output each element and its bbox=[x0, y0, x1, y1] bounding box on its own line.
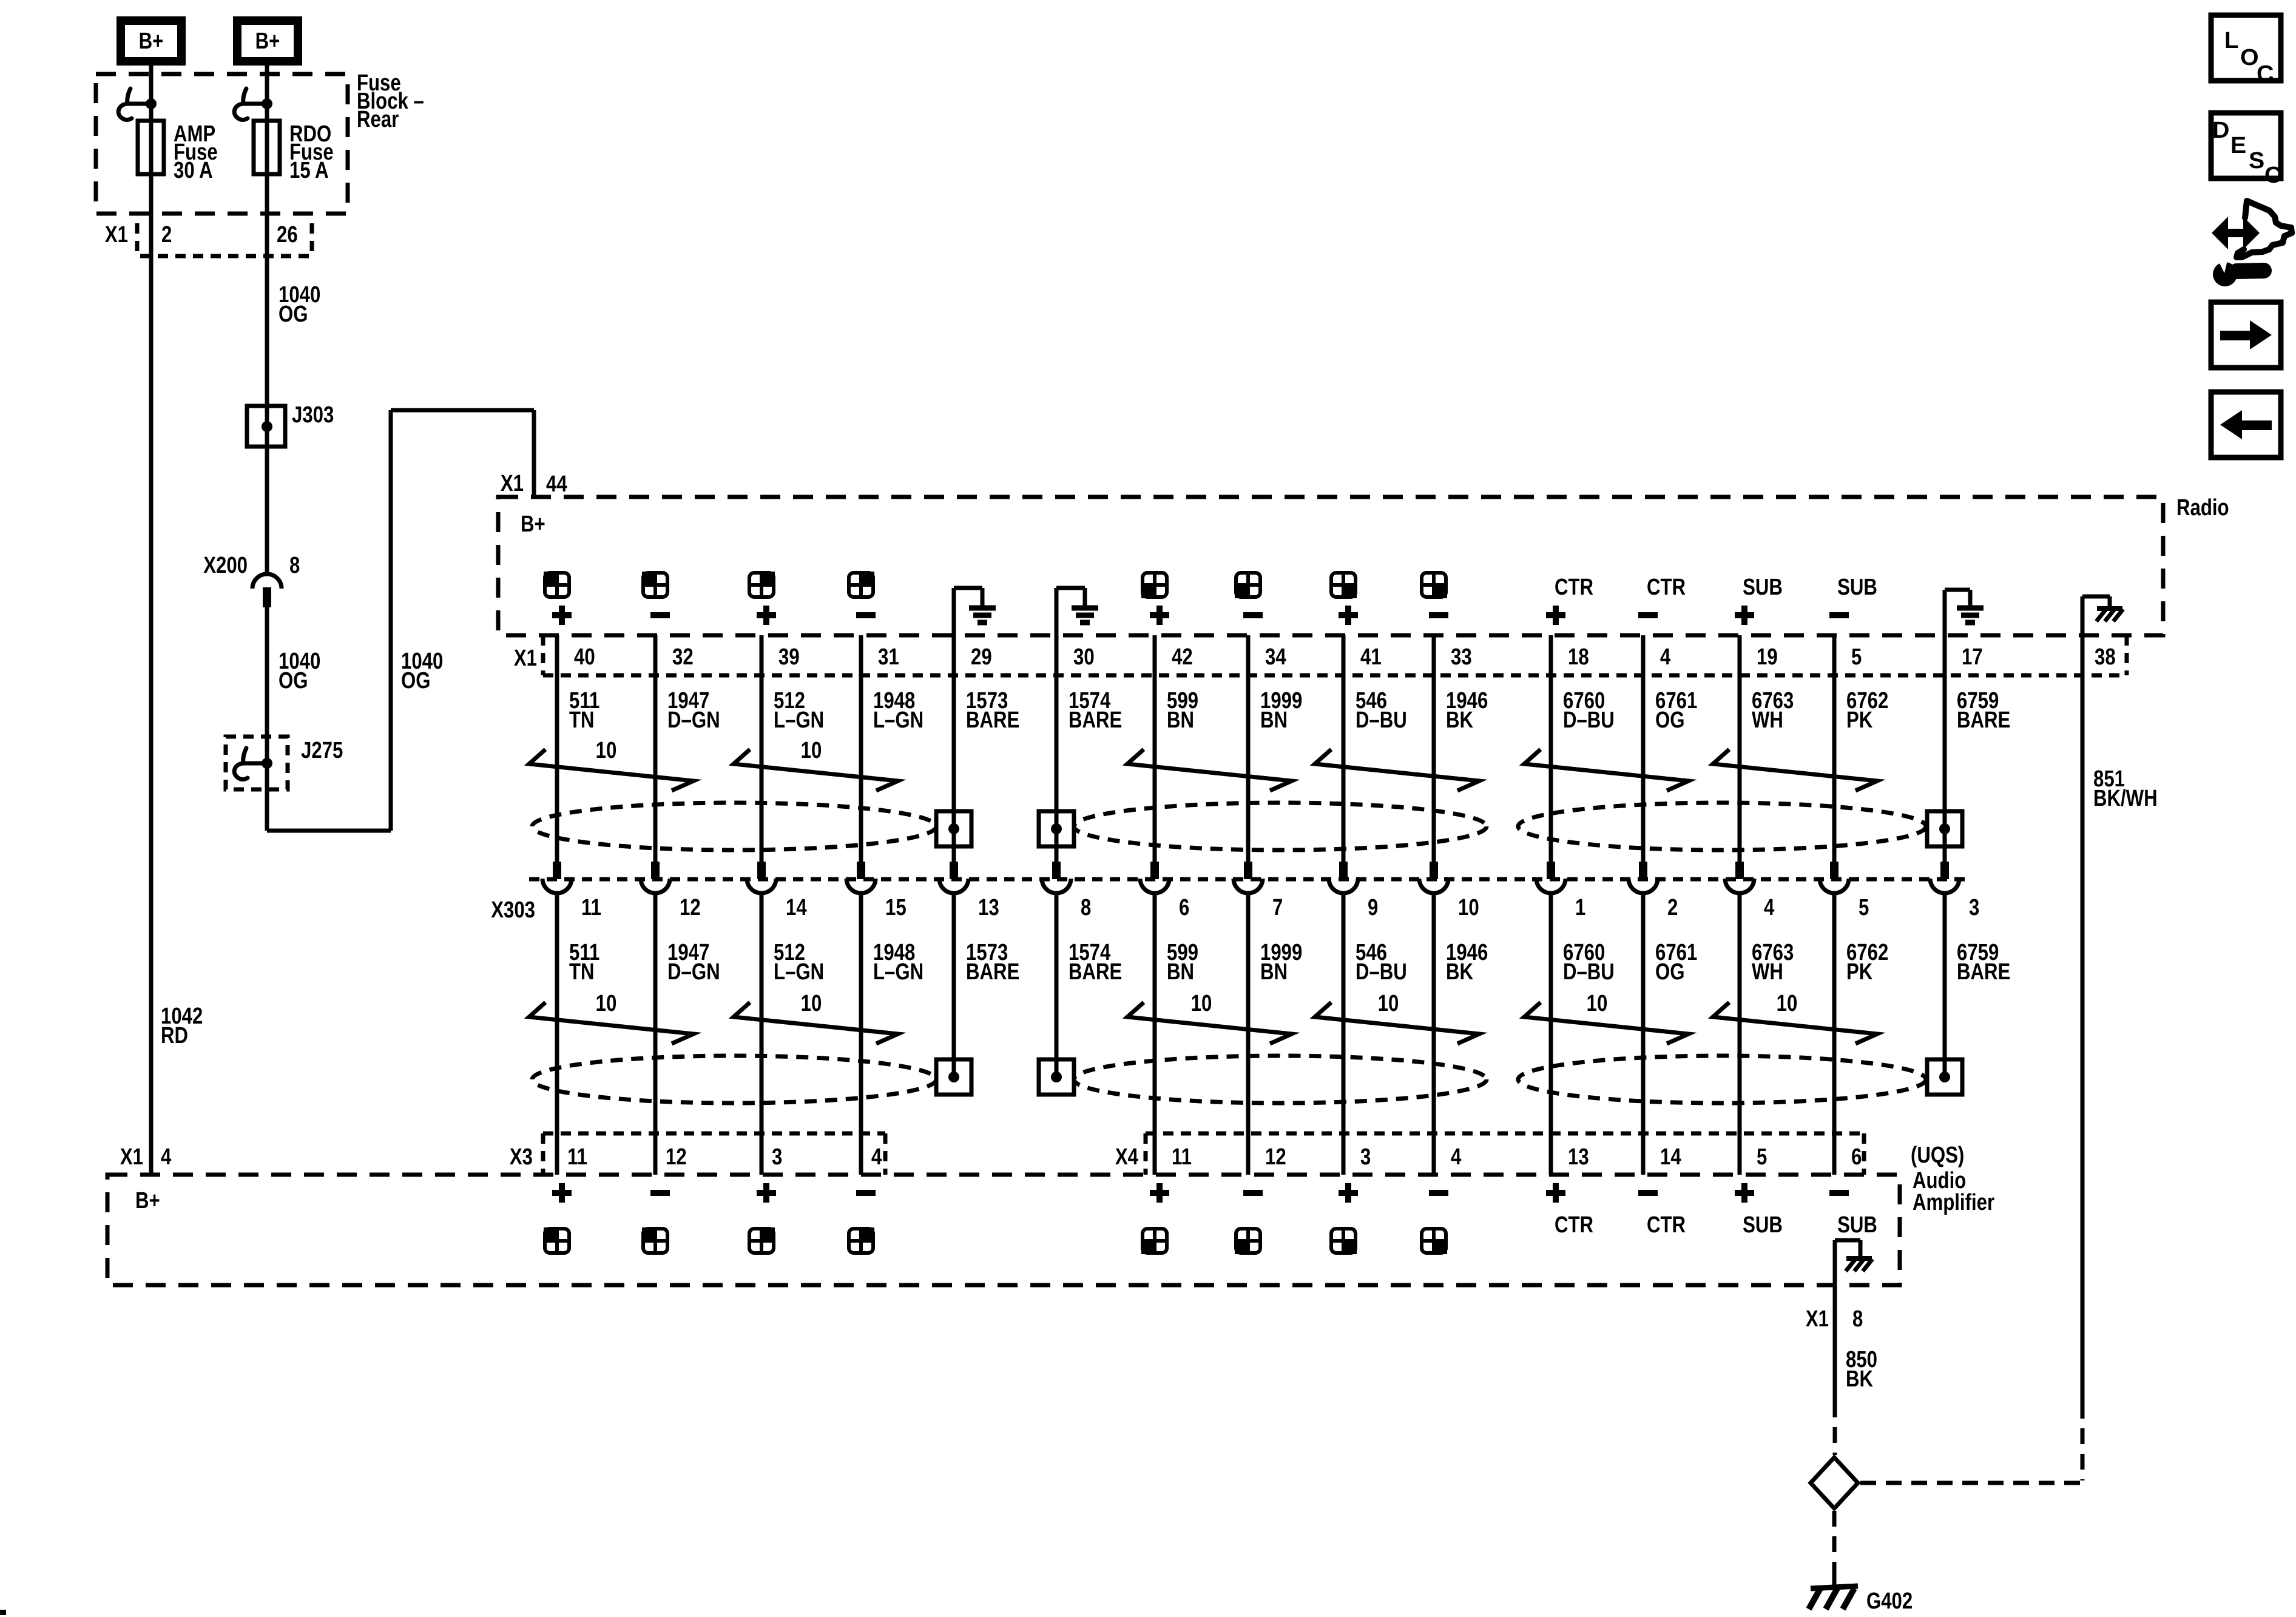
fuse terminal clip (RDO fuse) bbox=[243, 89, 265, 104]
svg-text:OG: OG bbox=[279, 302, 308, 327]
svg-text:OG: OG bbox=[401, 668, 431, 694]
fuse AMP Fuse 30 A bbox=[138, 121, 164, 174]
svg-text:10: 10 bbox=[1777, 991, 1798, 1016]
svg-text:38: 38 bbox=[2095, 644, 2116, 670]
svg-text:5: 5 bbox=[1757, 1144, 1767, 1170]
polarity - (amplifier, wire w10) bbox=[1429, 1190, 1448, 1196]
speaker icon (radio, pin 34) bbox=[1236, 573, 1260, 597]
polarity + (radio, wire w9) bbox=[1339, 612, 1358, 618]
svg-text:D–BU: D–BU bbox=[1356, 959, 1407, 985]
ground wire (amplifier internal to X1-8) bbox=[1833, 1240, 1837, 1402]
polarity + (radio, wire w1) bbox=[552, 612, 572, 618]
speaker icon (amplifier X3-3) bbox=[749, 1229, 774, 1253]
svg-text:1: 1 bbox=[1575, 895, 1585, 920]
svg-text:C: C bbox=[2264, 163, 2281, 188]
splice diamond bbox=[1811, 1457, 1858, 1508]
shield ellipse row 1 (CTR/SUB) bbox=[1518, 803, 1926, 850]
svg-text:X1: X1 bbox=[1806, 1306, 1829, 1332]
svg-text:SUB: SUB bbox=[1837, 575, 1877, 600]
svg-text:42: 42 bbox=[1172, 644, 1193, 670]
svg-text:15 A: 15 A bbox=[289, 158, 329, 183]
svg-text:31: 31 bbox=[878, 644, 899, 670]
svg-text:7: 7 bbox=[1272, 895, 1283, 920]
svg-text:11: 11 bbox=[567, 1144, 587, 1170]
svg-text:BN: BN bbox=[1167, 707, 1194, 733]
wire: 1040 OG routing to radio B+ (X1-44) bbox=[267, 829, 391, 833]
svg-text:BARE: BARE bbox=[1069, 959, 1122, 985]
svg-text:39: 39 bbox=[778, 644, 800, 670]
shield ellipse row 1 (rear speakers) bbox=[1074, 803, 1487, 850]
twisted-pair markers row 1 bbox=[529, 749, 694, 791]
svg-text:B+: B+ bbox=[135, 1188, 160, 1214]
svg-text:12: 12 bbox=[680, 895, 701, 920]
svg-text:(UQS): (UQS) bbox=[1911, 1143, 1964, 1168]
svg-text:34: 34 bbox=[1265, 644, 1286, 670]
svg-text:SUB: SUB bbox=[1743, 1212, 1783, 1238]
svg-text:CTR: CTR bbox=[1555, 1212, 1593, 1238]
svg-text:BARE: BARE bbox=[966, 707, 1019, 733]
ground (amplifier chassis symbol) bbox=[1846, 1256, 1872, 1261]
svg-text:B+: B+ bbox=[521, 511, 545, 537]
svg-text:BARE: BARE bbox=[1957, 707, 2010, 733]
wire: battery feed through AMP fuse, 1042 RD down to amplifier bbox=[149, 65, 154, 1175]
svg-text:E: E bbox=[2230, 133, 2246, 158]
svg-text:11: 11 bbox=[581, 895, 601, 920]
svg-text:D–GN: D–GN bbox=[667, 707, 720, 733]
polarity - (amplifier, wire w14) bbox=[1829, 1190, 1849, 1196]
fuse terminal clip (AMP fuse) bbox=[127, 89, 149, 104]
svg-text:8: 8 bbox=[1852, 1306, 1863, 1332]
svg-text:X200: X200 bbox=[203, 553, 248, 578]
svg-text:X3: X3 bbox=[510, 1144, 533, 1170]
connector X303 line bbox=[529, 877, 1966, 882]
wire: battery feed to RDO fuse bbox=[265, 65, 269, 573]
polarity + (amplifier, wire w3) bbox=[757, 1190, 776, 1196]
svg-text:13: 13 bbox=[1568, 1144, 1589, 1170]
speaker icon (radio, pin 40) bbox=[545, 573, 569, 597]
svg-text:2: 2 bbox=[161, 222, 172, 248]
icon LOC box bbox=[2211, 15, 2281, 81]
svg-text:2: 2 bbox=[1667, 895, 1678, 920]
svg-text:RD: RD bbox=[161, 1023, 188, 1048]
svg-text:19: 19 bbox=[1757, 644, 1778, 670]
svg-text:10: 10 bbox=[1378, 991, 1399, 1016]
wire splice to G402 bbox=[1832, 1511, 1837, 1578]
svg-text:32: 32 bbox=[672, 644, 694, 670]
svg-text:4: 4 bbox=[1764, 895, 1774, 920]
svg-text:CTR: CTR bbox=[1555, 575, 1593, 600]
svg-text:10: 10 bbox=[801, 991, 822, 1016]
ground G402 bbox=[1811, 1586, 1858, 1588]
svg-text:J275: J275 bbox=[301, 738, 343, 763]
svg-text:30 A: 30 A bbox=[174, 158, 213, 183]
speaker icon (amplifier X3-4) bbox=[849, 1229, 873, 1253]
svg-text:X1: X1 bbox=[501, 471, 524, 496]
svg-text:BN: BN bbox=[1260, 707, 1288, 733]
svg-text:D–BU: D–BU bbox=[1356, 707, 1407, 733]
svg-text:J303: J303 bbox=[292, 402, 334, 428]
svg-text:L–GN: L–GN bbox=[774, 959, 824, 985]
svg-text:10: 10 bbox=[1191, 991, 1212, 1016]
shield ellipse row 2 (rear speakers) bbox=[1074, 1056, 1487, 1103]
fuse RDO Fuse 15 A bbox=[254, 121, 280, 174]
svg-text:4: 4 bbox=[871, 1144, 882, 1170]
speaker icon (amplifier X4-12) bbox=[1236, 1229, 1260, 1253]
svg-text:BN: BN bbox=[1167, 959, 1194, 985]
wires: radio X1 pins down to X303 connectors bbox=[555, 635, 559, 862]
svg-text:Rear: Rear bbox=[357, 107, 399, 132]
power feed B+ (RDO circuit) bbox=[237, 21, 298, 61]
svg-text:BK: BK bbox=[1446, 959, 1473, 985]
svg-text:S: S bbox=[2249, 148, 2264, 174]
svg-text:4: 4 bbox=[1660, 644, 1670, 670]
svg-text:5: 5 bbox=[1851, 644, 1862, 670]
svg-text:O: O bbox=[2240, 45, 2259, 70]
connector X3 box bbox=[543, 1132, 885, 1136]
svg-text:X4: X4 bbox=[1115, 1144, 1138, 1170]
svg-text:10: 10 bbox=[596, 738, 617, 763]
wire 851 BK/WH (radio pin 38 to splice) bbox=[2081, 635, 2085, 1403]
svg-text:D–BU: D–BU bbox=[1563, 959, 1615, 985]
svg-text:44: 44 bbox=[546, 471, 567, 497]
svg-text:10: 10 bbox=[1458, 895, 1479, 920]
icon forward arrow box bbox=[2211, 302, 2281, 368]
polarity + (amplifier, wire w7) bbox=[1150, 1190, 1169, 1196]
svg-text:CTR: CTR bbox=[1647, 1212, 1686, 1238]
shield termination (drain 1573, row 2) bbox=[936, 1059, 971, 1095]
svg-text:10: 10 bbox=[801, 738, 822, 763]
connector X1 (fuse block) pins 2 and 26 bbox=[135, 223, 140, 253]
svg-text:3: 3 bbox=[1360, 1144, 1371, 1170]
svg-text:PK: PK bbox=[1846, 707, 1873, 733]
svg-text:BK: BK bbox=[1846, 1366, 1873, 1392]
svg-text:X1: X1 bbox=[105, 222, 128, 248]
svg-text:3: 3 bbox=[1969, 895, 1979, 920]
svg-text:OG: OG bbox=[279, 668, 308, 694]
svg-text:B+: B+ bbox=[255, 29, 280, 54]
svg-text:11: 11 bbox=[1172, 1144, 1192, 1170]
svg-text:BN: BN bbox=[1260, 959, 1288, 985]
connector X4 box bbox=[1146, 1132, 1864, 1136]
wires: shield drains from X303 to lower shield terminations bbox=[952, 894, 956, 1079]
polarity + (amplifier, wire w13) bbox=[1735, 1190, 1754, 1196]
svg-text:BK: BK bbox=[1446, 707, 1473, 733]
polarity - (amplifier, wire w8) bbox=[1243, 1190, 1263, 1196]
junction J275 bbox=[226, 737, 288, 789]
svg-text:BARE: BARE bbox=[1069, 707, 1122, 733]
shield termination (drain 6759, row 2) bbox=[1927, 1059, 1962, 1095]
stray mark (bottom-left artifact) bbox=[0, 1610, 6, 1615]
svg-text:WH: WH bbox=[1752, 959, 1783, 985]
polarity - (radio, wire w8) bbox=[1243, 612, 1263, 618]
svg-text:26: 26 bbox=[277, 222, 298, 248]
svg-text:8: 8 bbox=[289, 553, 300, 578]
polarity + (radio, wire w13) bbox=[1735, 612, 1754, 618]
shield termination (drain 1573, row 1) bbox=[936, 811, 971, 846]
svg-text:TN: TN bbox=[569, 959, 595, 985]
speaker icon (amplifier X4-11) bbox=[1143, 1229, 1167, 1253]
svg-text:BARE: BARE bbox=[1957, 959, 2010, 985]
svg-text:10: 10 bbox=[1587, 991, 1608, 1016]
svg-text:6: 6 bbox=[1179, 895, 1189, 920]
polarity - (radio, wire w4) bbox=[856, 612, 876, 618]
ground (radio pin 29 earth symbol) bbox=[952, 588, 956, 635]
svg-text:D–BU: D–BU bbox=[1563, 707, 1615, 733]
polarity - (radio, wire w10) bbox=[1429, 612, 1448, 618]
svg-text:SUB: SUB bbox=[1743, 575, 1783, 600]
connector X200 pin 8 bbox=[252, 574, 282, 589]
speaker icon (amplifier X4-4) bbox=[1422, 1229, 1446, 1253]
splice J303 bbox=[247, 406, 285, 447]
svg-text:10: 10 bbox=[596, 991, 617, 1016]
svg-text:OG: OG bbox=[1655, 959, 1685, 985]
polarity + (amplifier, wire w1) bbox=[552, 1190, 572, 1196]
svg-text:OG: OG bbox=[1655, 707, 1685, 733]
icon DESC box bbox=[2211, 113, 2281, 178]
polarity - (amplifier, wire w4) bbox=[856, 1190, 876, 1196]
twisted-pair markers row 2 bbox=[529, 1002, 694, 1044]
polarity - (amplifier, wire w2) bbox=[650, 1190, 670, 1196]
svg-text:L–GN: L–GN bbox=[873, 707, 923, 733]
icon harness routing (double arrow, component outline, wrench) bbox=[2212, 217, 2260, 249]
polarity - (radio, wire w14) bbox=[1829, 612, 1849, 618]
ground (radio pin 38 chassis symbol) bbox=[2081, 596, 2085, 635]
shield ellipse row 2 (left speakers) bbox=[532, 1056, 936, 1103]
svg-text:4: 4 bbox=[161, 1144, 171, 1170]
polarity - (radio, wire w2) bbox=[650, 612, 670, 618]
ground (radio pin 17 earth symbol) bbox=[1943, 590, 1947, 635]
speaker icon (amplifier X3-12) bbox=[643, 1229, 667, 1253]
svg-text:PK: PK bbox=[1846, 959, 1873, 985]
speaker icon (radio, pin 32) bbox=[643, 573, 667, 597]
svg-text:12: 12 bbox=[1265, 1144, 1286, 1170]
svg-text:29: 29 bbox=[971, 644, 992, 670]
svg-text:12: 12 bbox=[666, 1144, 687, 1170]
svg-text:18: 18 bbox=[1568, 644, 1589, 670]
svg-text:L: L bbox=[2224, 28, 2239, 53]
polarity + (radio, wire w3) bbox=[757, 612, 776, 618]
polarity - (amplifier, wire w12) bbox=[1638, 1190, 1658, 1196]
polarity + (radio, wire w11) bbox=[1546, 612, 1565, 618]
svg-text:X1: X1 bbox=[514, 646, 537, 671]
polarity - (radio, wire w12) bbox=[1638, 612, 1658, 618]
Fuse Block - Rear box bbox=[96, 74, 348, 214]
shield ellipse row 2 (CTR/SUB) bbox=[1518, 1056, 1926, 1103]
Audio Amplifier box bbox=[107, 1175, 1900, 1285]
svg-text:14: 14 bbox=[786, 895, 807, 920]
svg-text:D: D bbox=[2212, 118, 2229, 143]
svg-text:5: 5 bbox=[1859, 895, 1869, 920]
polarity + (amplifier, wire w11) bbox=[1546, 1190, 1565, 1196]
connector X1 (radio) box bbox=[541, 635, 545, 675]
power feed B+ (AMP circuit) bbox=[121, 21, 181, 61]
svg-text:WH: WH bbox=[1752, 707, 1783, 733]
wires: X303 connectors down to amplifier connectors bbox=[555, 894, 559, 1175]
wire 850 BK dashed to splice bbox=[1833, 1402, 1837, 1455]
speaker icon (amplifier X4-3) bbox=[1331, 1229, 1356, 1253]
svg-text:9: 9 bbox=[1368, 895, 1378, 920]
shield termination (drain 1574, row 1) bbox=[1039, 811, 1074, 846]
svg-text:B+: B+ bbox=[139, 29, 164, 54]
svg-text:X1: X1 bbox=[120, 1144, 143, 1170]
svg-text:8: 8 bbox=[1081, 895, 1091, 920]
svg-text:L–GN: L–GN bbox=[873, 959, 923, 985]
svg-text:Amplifier: Amplifier bbox=[1913, 1190, 1994, 1215]
svg-text:BK/WH: BK/WH bbox=[2093, 786, 2158, 811]
svg-text:L–GN: L–GN bbox=[774, 707, 824, 733]
speaker icon (radio, pin 39) bbox=[749, 573, 774, 597]
svg-text:C: C bbox=[2257, 61, 2274, 87]
shield termination (drain 6759, row 1) bbox=[1927, 811, 1962, 846]
svg-text:4: 4 bbox=[1451, 1144, 1461, 1170]
svg-text:33: 33 bbox=[1451, 644, 1472, 670]
shield termination (drain 1574, row 2) bbox=[1039, 1059, 1074, 1095]
svg-text:BARE: BARE bbox=[966, 959, 1019, 985]
svg-text:X303: X303 bbox=[491, 897, 535, 923]
svg-text:CTR: CTR bbox=[1647, 575, 1686, 600]
shield ellipse row 1 (left speakers) bbox=[532, 803, 936, 850]
svg-text:13: 13 bbox=[978, 895, 999, 920]
svg-text:41: 41 bbox=[1360, 644, 1382, 670]
svg-text:Radio: Radio bbox=[2176, 495, 2229, 521]
svg-text:D–GN: D–GN bbox=[667, 959, 720, 985]
speaker icon (radio, pin 42) bbox=[1143, 573, 1167, 597]
speaker icon (radio, pin 31) bbox=[849, 573, 873, 597]
speaker icon (radio, pin 33) bbox=[1422, 573, 1446, 597]
svg-text:SUB: SUB bbox=[1837, 1212, 1877, 1238]
svg-text:17: 17 bbox=[1962, 644, 1983, 670]
speaker icon (amplifier X3-11) bbox=[545, 1229, 569, 1253]
svg-text:3: 3 bbox=[772, 1144, 782, 1170]
polarity + (amplifier, wire w9) bbox=[1339, 1190, 1358, 1196]
svg-text:6: 6 bbox=[1851, 1144, 1862, 1170]
Radio box bbox=[498, 497, 2163, 635]
connector X303 terminals bbox=[553, 862, 561, 879]
svg-text:15: 15 bbox=[885, 895, 907, 920]
icon back arrow box bbox=[2211, 392, 2281, 457]
svg-text:G402: G402 bbox=[1866, 1588, 1913, 1614]
svg-text:30: 30 bbox=[1073, 644, 1095, 670]
svg-text:TN: TN bbox=[569, 707, 595, 733]
speaker icon (radio, pin 41) bbox=[1331, 573, 1356, 597]
polarity + (radio, wire w7) bbox=[1150, 612, 1169, 618]
svg-text:14: 14 bbox=[1660, 1144, 1681, 1170]
ground (radio pin 30 earth symbol) bbox=[1055, 588, 1059, 635]
svg-text:40: 40 bbox=[574, 644, 595, 670]
